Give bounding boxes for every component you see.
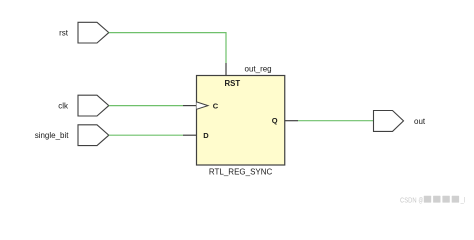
pin stub C: [183, 105, 197, 107]
svg-text:C: C: [213, 101, 219, 110]
watermark CSDN: [400, 195, 465, 204]
input port rst: [78, 22, 109, 43]
pin stub D: [183, 134, 197, 136]
wire clk net: [109, 105, 183, 107]
wire rst net: [109, 33, 226, 63]
svg-text:out: out: [414, 117, 426, 126]
clock pin triangle C: [197, 102, 209, 109]
svg-text:_l: _l: [460, 195, 465, 204]
wire out net: [298, 120, 374, 122]
input port clk: [78, 95, 109, 116]
input port single_bit: [78, 125, 109, 146]
svg-text:single_bit: single_bit: [35, 131, 70, 140]
pin stub RST: [225, 63, 227, 76]
svg-text:Q: Q: [272, 116, 278, 125]
svg-text:@: @: [419, 195, 424, 204]
svg-text:rst: rst: [59, 29, 69, 38]
svg-text:RST: RST: [225, 79, 241, 88]
svg-text:RTL_REG_SYNC: RTL_REG_SYNC: [209, 168, 273, 177]
svg-text:D: D: [203, 131, 209, 140]
pin stub Q: [285, 120, 298, 122]
output port out: [374, 111, 404, 132]
svg-text:out_reg: out_reg: [245, 65, 272, 74]
svg-text:clk: clk: [58, 102, 69, 111]
wire single_bit net: [109, 134, 183, 136]
register block out_reg RTL_REG_SYNC: [197, 76, 285, 166]
svg-text:CSDN: CSDN: [400, 195, 417, 204]
